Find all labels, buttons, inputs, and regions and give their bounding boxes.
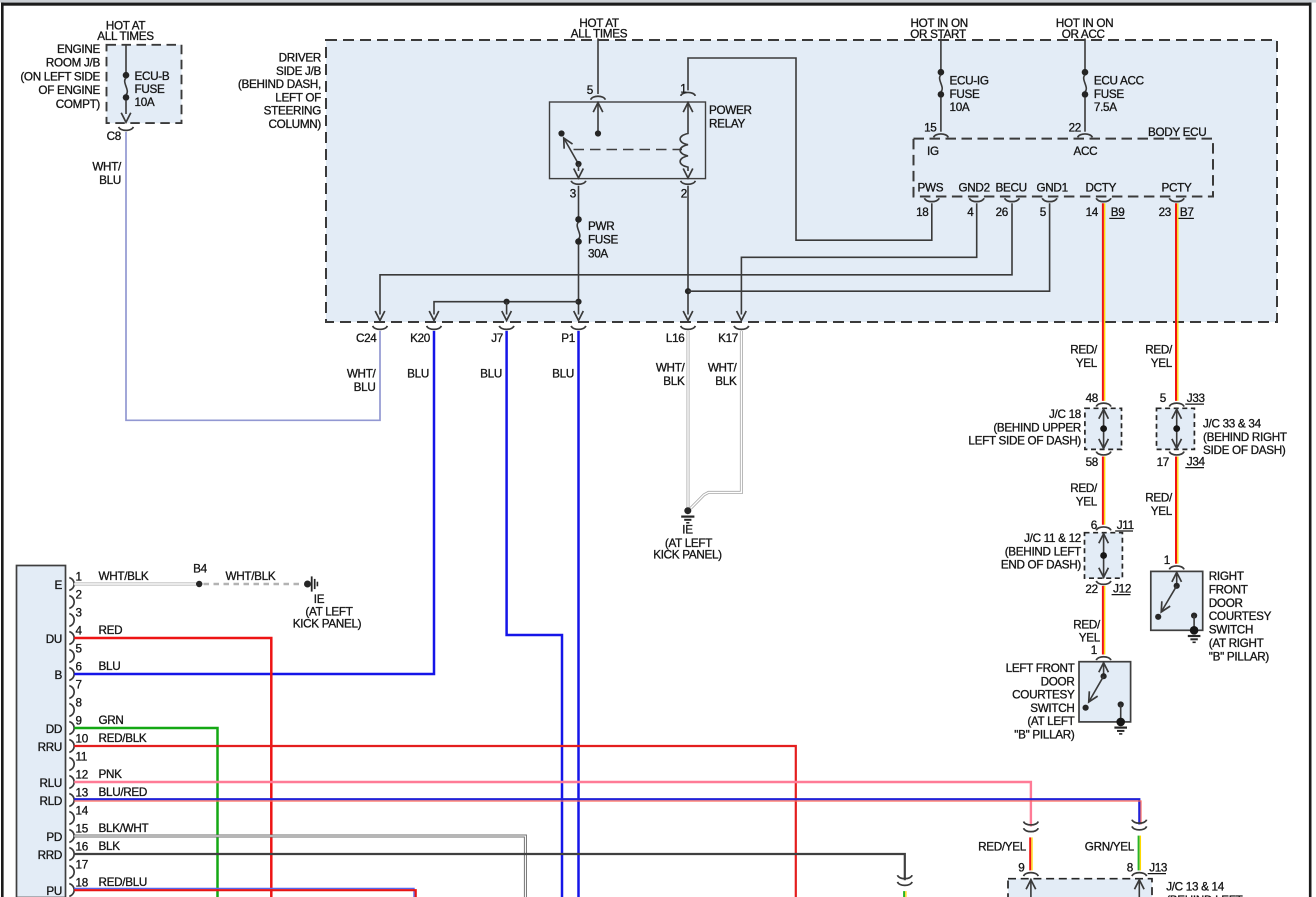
- svg-text:1: 1: [76, 571, 82, 584]
- svg-text:ECU ACC: ECU ACC: [1094, 75, 1144, 88]
- svg-text:RED/: RED/: [1070, 344, 1098, 357]
- pin 3: [69, 614, 74, 627]
- wire RED/YEL J34 to right courtesy switch: [1176, 457, 1178, 564]
- svg-text:5: 5: [76, 643, 83, 656]
- svg-text:SIDE OF DASH): SIDE OF DASH): [1203, 444, 1286, 457]
- svg-text:ECU-IG: ECU-IG: [950, 75, 989, 88]
- svg-text:SWITCH: SWITCH: [1030, 702, 1074, 715]
- relay pin5 internal arrow: [597, 102, 599, 133]
- pin 23 PCTY connector B7: [1169, 198, 1184, 201]
- svg-text:J33: J33: [1187, 392, 1205, 405]
- svg-text:"B" PILLAR): "B" PILLAR): [1209, 650, 1270, 663]
- svg-text:3: 3: [570, 188, 576, 201]
- svg-text:ENGINE: ENGINE: [57, 43, 101, 56]
- svg-text:LEFT FRONT: LEFT FRONT: [1006, 662, 1075, 675]
- svg-text:11: 11: [76, 751, 88, 764]
- fuse ECU-B 10A: [123, 72, 130, 101]
- svg-text:GND2: GND2: [959, 181, 990, 194]
- fuse PWR 30A: [575, 216, 582, 245]
- svg-text:1: 1: [1164, 554, 1170, 567]
- svg-text:(ON LEFT SIDE: (ON LEFT SIDE: [20, 70, 100, 83]
- switch ground contact: [1118, 701, 1124, 707]
- page border right: [1309, 3, 1312, 897]
- svg-text:22: 22: [1085, 583, 1097, 596]
- junction block DRIVER SIDE J/B box: [326, 40, 1277, 322]
- svg-text:GRN/YEL: GRN/YEL: [1085, 841, 1135, 854]
- junction connector J/C 33 & 34 box: [1157, 408, 1195, 449]
- svg-text:RED/YEL: RED/YEL: [978, 841, 1027, 854]
- ground left switch: [1116, 718, 1125, 727]
- svg-text:RED/BLU: RED/BLU: [99, 876, 148, 889]
- svg-text:1: 1: [1091, 644, 1097, 657]
- svg-text:KICK PANEL): KICK PANEL): [293, 618, 362, 631]
- pin 1 connector: [681, 92, 696, 95]
- svg-text:DCTY: DCTY: [1086, 181, 1117, 194]
- svg-text:KICK PANEL): KICK PANEL): [653, 548, 722, 561]
- svg-text:J34: J34: [1187, 456, 1206, 469]
- svg-text:RED/BLK: RED/BLK: [99, 732, 147, 745]
- connector L16: [681, 326, 696, 329]
- wire to ECU ACC fuse: [1084, 39, 1086, 71]
- svg-text:WHT/: WHT/: [708, 362, 738, 375]
- svg-text:SWITCH: SWITCH: [1209, 624, 1253, 637]
- ECU BODY ECU box: [914, 139, 1214, 197]
- svg-text:BLU: BLU: [99, 174, 121, 187]
- svg-text:YEL: YEL: [1151, 505, 1173, 518]
- connector 22 J12: [1096, 581, 1111, 584]
- svg-text:23: 23: [1159, 206, 1171, 219]
- svg-text:BLK: BLK: [663, 375, 685, 388]
- wire BECU to C24: [380, 203, 1012, 314]
- relay coil: [680, 102, 688, 171]
- svg-text:J12: J12: [1113, 583, 1131, 596]
- svg-text:5: 5: [1040, 206, 1047, 219]
- connector K20: [427, 326, 442, 329]
- pin 1 E: [69, 578, 74, 591]
- svg-text:4: 4: [76, 625, 83, 638]
- pin 3 connector: [571, 181, 586, 184]
- svg-text:DOOR: DOOR: [1209, 597, 1243, 610]
- svg-text:10A: 10A: [950, 101, 970, 114]
- svg-text:RLU: RLU: [40, 777, 62, 790]
- inline connector blk/grn-yel: [898, 875, 913, 885]
- pin 10 RRU: [69, 740, 74, 753]
- svg-text:10: 10: [76, 733, 89, 746]
- fuse ECU-IG 10A: [938, 69, 945, 98]
- relay actuation dashed link: [574, 149, 683, 151]
- svg-text:3: 3: [76, 607, 82, 620]
- relay switch arm to pin 3: [578, 164, 580, 171]
- svg-text:ALL TIMES: ALL TIMES: [97, 30, 154, 43]
- svg-text:RLD: RLD: [40, 795, 62, 808]
- page border top: [1, 3, 1312, 6]
- svg-text:J/C 18: J/C 18: [1049, 408, 1081, 421]
- pin 7: [69, 686, 74, 699]
- svg-text:B4: B4: [193, 563, 207, 576]
- svg-text:COURTESY: COURTESY: [1209, 610, 1272, 623]
- splice B4: [196, 581, 202, 587]
- svg-text:PCTY: PCTY: [1162, 181, 1192, 194]
- wire RED/YEL to J13 pin 9: [1030, 837, 1032, 870]
- svg-text:12: 12: [76, 769, 88, 782]
- wire PWR fuse to P1: [578, 244, 580, 315]
- svg-text:18: 18: [76, 877, 88, 890]
- svg-text:PD: PD: [46, 831, 62, 844]
- svg-text:END OF DASH): END OF DASH): [1001, 559, 1082, 572]
- svg-text:IE: IE: [314, 593, 325, 606]
- connector 5 J33: [1169, 403, 1184, 406]
- svg-text:PWR: PWR: [588, 220, 614, 233]
- svg-text:BODY ECU: BODY ECU: [1148, 126, 1206, 139]
- ground IE (sideways): [304, 581, 311, 588]
- svg-text:GRN: GRN: [99, 714, 124, 727]
- wire BLU J7 down: [507, 331, 562, 897]
- svg-text:RED/: RED/: [1145, 492, 1173, 505]
- svg-text:OF ENGINE: OF ENGINE: [38, 84, 100, 97]
- pin 2 connector: [681, 181, 696, 184]
- svg-text:BLU: BLU: [552, 368, 574, 381]
- switch LEFT FRONT DOOR COURTESY SWITCH: [1079, 662, 1131, 722]
- svg-text:(BEHIND UPPER: (BEHIND UPPER: [993, 421, 1081, 434]
- fuse ECU ACC 7.5A: [1082, 69, 1089, 98]
- svg-text:8: 8: [1127, 862, 1133, 875]
- svg-text:ECU-B: ECU-B: [135, 70, 170, 83]
- svg-text:17: 17: [76, 859, 88, 872]
- svg-text:(BEHIND DASH,: (BEHIND DASH,: [238, 78, 321, 91]
- svg-text:PWS: PWS: [918, 181, 944, 194]
- pin 18 PWS connector: [925, 198, 940, 201]
- relay switch common dot: [558, 130, 564, 136]
- svg-text:J/C 13 & 14: J/C 13 & 14: [1166, 881, 1225, 894]
- pin 5: [69, 650, 74, 663]
- connector 1 right switch: [1169, 566, 1184, 569]
- svg-text:BLK/WHT: BLK/WHT: [99, 822, 149, 835]
- svg-text:RED: RED: [99, 624, 123, 637]
- wire GRN/YEL stub below: [904, 891, 906, 897]
- wire BLU/RED pin 13: [74, 799, 1139, 824]
- svg-text:15: 15: [76, 823, 89, 836]
- junction connector J/C 18 box: [1085, 408, 1122, 449]
- connector block (left instrument panel): [17, 566, 66, 897]
- svg-text:"B" PILLAR): "B" PILLAR): [1014, 729, 1075, 742]
- pin 8: [69, 704, 74, 717]
- svg-text:10A: 10A: [135, 96, 155, 109]
- inline connector pnk/red-yel: [1024, 822, 1039, 832]
- svg-text:YEL: YEL: [1151, 357, 1173, 370]
- wire RED/BLU pin 18: [74, 889, 414, 897]
- svg-text:18: 18: [916, 206, 928, 219]
- pin 15 PD: [69, 830, 74, 843]
- svg-text:FUSE: FUSE: [950, 88, 980, 101]
- pin 14 DCTY connector B9: [1096, 198, 1111, 201]
- svg-text:30A: 30A: [588, 247, 608, 260]
- pin 12 RLU: [69, 776, 74, 789]
- connector 1 left switch: [1096, 657, 1111, 660]
- svg-text:WHT/: WHT/: [347, 368, 377, 381]
- svg-text:WHT/BLK: WHT/BLK: [99, 570, 149, 583]
- wire ECU ACC fuse to ACC pin 22: [1084, 97, 1086, 132]
- svg-text:26: 26: [996, 206, 1008, 219]
- wire to ECU-IG fuse: [940, 39, 942, 71]
- svg-text:FUSE: FUSE: [1094, 88, 1124, 101]
- svg-text:7.5A: 7.5A: [1094, 101, 1117, 114]
- wire hot to relay pin 5: [597, 39, 599, 95]
- svg-text:COLUMN): COLUMN): [269, 118, 322, 131]
- pin 11: [69, 758, 74, 771]
- wire relay pin 1 to PWS: [688, 58, 932, 240]
- switch RIGHT FRONT DOOR COURTESY SWITCH: [1151, 571, 1203, 630]
- svg-text:DU: DU: [46, 633, 62, 646]
- connector K17: [734, 326, 749, 329]
- svg-text:P1: P1: [561, 332, 575, 345]
- wire relay pin 2 to L16 and GND1: [687, 186, 689, 315]
- wire GRN/YEL to J13 pin 8: [1139, 836, 1141, 871]
- svg-text:(BEHIND LEFT: (BEHIND LEFT: [1005, 545, 1081, 558]
- svg-text:J/C 33 & 34: J/C 33 & 34: [1203, 418, 1262, 431]
- connector 6 J11: [1096, 527, 1111, 530]
- svg-text:K20: K20: [410, 332, 431, 345]
- svg-text:PU: PU: [46, 885, 62, 897]
- junction connector J/C 11 & 12 box: [1085, 533, 1123, 579]
- svg-text:5: 5: [587, 84, 594, 97]
- svg-text:(AT RIGHT: (AT RIGHT: [1209, 637, 1264, 650]
- svg-text:2: 2: [681, 188, 687, 201]
- svg-text:16: 16: [76, 841, 88, 854]
- wire RED pin 4: [74, 638, 271, 897]
- wire RED/YEL DCTY to J/C 18: [1103, 203, 1105, 401]
- svg-text:DOOR: DOOR: [1041, 675, 1075, 688]
- svg-text:BLU: BLU: [354, 381, 376, 394]
- wire BLK pin 16: [74, 854, 905, 880]
- svg-text:K17: K17: [718, 332, 738, 345]
- svg-text:6: 6: [76, 661, 82, 674]
- wire BLU K20 to pin 6: [74, 331, 434, 674]
- svg-text:FUSE: FUSE: [588, 234, 618, 247]
- svg-text:YEL: YEL: [1076, 496, 1098, 509]
- svg-text:58: 58: [1086, 456, 1098, 469]
- wire fuse to C8: [125, 100, 127, 114]
- svg-text:L16: L16: [666, 332, 685, 345]
- svg-text:14: 14: [76, 805, 89, 818]
- wire GRN pin 9: [74, 728, 217, 897]
- pin 13 RLD: [69, 794, 74, 807]
- page top grey strip: [0, 0, 1316, 3]
- wire ECU-IG fuse to IG pin 15: [940, 97, 942, 132]
- svg-text:RED/: RED/: [1073, 619, 1101, 632]
- junction dot J7: [504, 299, 510, 305]
- connector 48: [1096, 403, 1111, 406]
- connector C8: [119, 127, 134, 130]
- wire pin 3 to PWR fuse: [578, 186, 580, 217]
- svg-text:BLK: BLK: [99, 840, 121, 853]
- svg-text:GND1: GND1: [1037, 181, 1068, 194]
- connector J7: [499, 326, 514, 329]
- connector P1: [571, 326, 586, 329]
- svg-text:IE: IE: [682, 524, 693, 537]
- svg-text:COURTESY: COURTESY: [1012, 689, 1075, 702]
- svg-text:14: 14: [1086, 206, 1099, 219]
- pin 6 B: [69, 668, 74, 681]
- svg-text:LEFT SIDE OF DASH): LEFT SIDE OF DASH): [968, 435, 1081, 448]
- svg-text:YEL: YEL: [1076, 357, 1098, 370]
- wire GND2 to K17: [741, 203, 976, 314]
- svg-text:BLU: BLU: [407, 368, 429, 381]
- svg-text:PNK: PNK: [99, 768, 123, 781]
- wire BLK/WHT pin 15: [74, 836, 525, 897]
- svg-text:1: 1: [680, 83, 686, 96]
- svg-text:C8: C8: [107, 130, 121, 143]
- relay switch arm: [564, 139, 579, 165]
- wire RED/YEL J/C18 to J/C11: [1103, 457, 1105, 525]
- pin 5 GND1 connector: [1042, 198, 1057, 201]
- svg-text:POWER: POWER: [709, 104, 752, 117]
- svg-text:RIGHT: RIGHT: [1209, 570, 1244, 583]
- junction dot pin2/GND1: [685, 288, 691, 294]
- pin 26 BECU connector: [1005, 198, 1020, 201]
- svg-text:WHT/: WHT/: [92, 161, 122, 174]
- page border left: [1, 3, 4, 897]
- svg-text:9: 9: [1018, 862, 1024, 875]
- svg-text:J13: J13: [1149, 862, 1167, 875]
- svg-text:DD: DD: [46, 723, 62, 736]
- svg-text:ROOM J/B: ROOM J/B: [46, 57, 101, 70]
- wire into ECU-B fuse: [125, 45, 127, 73]
- svg-text:BLU: BLU: [480, 368, 502, 381]
- wire RED/YEL J/C12 to left courtesy switch: [1103, 586, 1105, 655]
- wire WHT/BLK pin1 to B4: [74, 583, 196, 586]
- pin 14: [69, 812, 74, 825]
- svg-text:OR ACC: OR ACC: [1062, 28, 1105, 41]
- svg-text:RRU: RRU: [38, 741, 62, 754]
- svg-text:ALL TIMES: ALL TIMES: [571, 28, 628, 41]
- svg-text:C24: C24: [356, 332, 377, 345]
- wire PNK pin 12: [74, 782, 1031, 827]
- pin 17: [69, 866, 74, 879]
- svg-text:22: 22: [1069, 122, 1081, 135]
- svg-text:FUSE: FUSE: [135, 83, 165, 96]
- wire branch to J7: [506, 302, 508, 315]
- svg-text:LEFT OF: LEFT OF: [275, 91, 321, 104]
- wire WHT/BLK K17 to IE ground: [691, 331, 742, 509]
- wire RED/YEL PCTY to J33: [1176, 203, 1178, 401]
- svg-text:13: 13: [76, 787, 88, 800]
- svg-text:BLK: BLK: [715, 375, 737, 388]
- junction connector J/C 13 & 14 box: [1008, 879, 1152, 897]
- connector 8 J13: [1132, 873, 1147, 876]
- pin 4 GND2 connector: [969, 198, 984, 201]
- svg-text:E: E: [55, 579, 63, 592]
- svg-text:4: 4: [967, 206, 974, 219]
- svg-text:J11: J11: [1117, 519, 1134, 532]
- wire RED/BLK pin 10: [74, 746, 796, 897]
- svg-text:RED/: RED/: [1145, 344, 1173, 357]
- pin 4 DU: [69, 632, 74, 645]
- svg-text:6: 6: [1091, 519, 1097, 532]
- wire WHT/BLK L16 to IE ground: [687, 331, 690, 508]
- relay POWER RELAY box: [550, 102, 706, 179]
- svg-text:STEERING: STEERING: [264, 105, 322, 118]
- svg-text:FRONT: FRONT: [1209, 583, 1248, 596]
- svg-text:BLU: BLU: [99, 660, 121, 673]
- svg-text:BLU/RED: BLU/RED: [99, 786, 148, 799]
- switch ground contact: [1191, 613, 1197, 619]
- svg-text:RED/: RED/: [1070, 482, 1098, 495]
- junction block ENGINE ROOM J/B box: [107, 45, 182, 123]
- pin 2: [69, 596, 74, 609]
- wire GND1 to relay pin 2 node: [688, 203, 1050, 291]
- svg-text:48: 48: [1086, 392, 1098, 405]
- svg-text:J/C 11 & 12: J/C 11 & 12: [1024, 532, 1081, 545]
- svg-text:RRD: RRD: [38, 849, 62, 862]
- connector 17 J34: [1169, 452, 1184, 455]
- wire BLU P1 down: [577, 331, 580, 897]
- svg-text:5: 5: [1160, 392, 1167, 405]
- ground right switch: [1190, 626, 1199, 635]
- svg-text:IG: IG: [927, 145, 939, 158]
- pin 18 PU: [69, 884, 74, 897]
- svg-text:(AT LEFT: (AT LEFT: [1027, 715, 1074, 728]
- svg-text:WHT/BLK: WHT/BLK: [226, 570, 276, 583]
- svg-text:B: B: [55, 669, 63, 682]
- pin 16 RRD: [69, 848, 74, 861]
- svg-text:8: 8: [76, 697, 82, 710]
- svg-text:ACC: ACC: [1074, 145, 1098, 158]
- svg-text:WHT/: WHT/: [656, 362, 686, 375]
- pin 9 DD: [69, 722, 74, 735]
- wire branch to K20 and J7: [434, 302, 579, 315]
- svg-text:15: 15: [924, 122, 937, 135]
- svg-text:RELAY: RELAY: [709, 117, 745, 130]
- svg-text:7: 7: [76, 679, 82, 692]
- svg-text:DRIVER: DRIVER: [279, 52, 321, 65]
- svg-text:YEL: YEL: [1079, 632, 1101, 645]
- svg-text:2: 2: [76, 589, 82, 602]
- svg-text:B7: B7: [1180, 206, 1194, 219]
- connector 58: [1096, 452, 1111, 455]
- svg-text:17: 17: [1157, 456, 1169, 469]
- ground IE: [684, 507, 691, 514]
- junction dot P1 branch: [575, 299, 581, 305]
- svg-text:J7: J7: [491, 332, 503, 345]
- svg-text:COMPT): COMPT): [56, 98, 101, 111]
- svg-text:(BEHIND RIGHT: (BEHIND RIGHT: [1203, 431, 1287, 444]
- svg-text:SIDE J/B: SIDE J/B: [276, 65, 322, 78]
- svg-text:9: 9: [76, 715, 82, 728]
- svg-text:OR START: OR START: [910, 28, 966, 41]
- inline connector blu-red/grn-yel: [1132, 820, 1147, 830]
- pin 5 connector: [591, 96, 606, 99]
- wire WHT/BLU C8 to C24: [126, 132, 380, 420]
- connector C24: [373, 326, 388, 329]
- svg-text:B9: B9: [1111, 206, 1125, 219]
- connector 9 into J13: [1024, 873, 1039, 876]
- wire WHT/BLK B4 to IE (dashed): [204, 583, 302, 586]
- svg-text:BECU: BECU: [996, 181, 1027, 194]
